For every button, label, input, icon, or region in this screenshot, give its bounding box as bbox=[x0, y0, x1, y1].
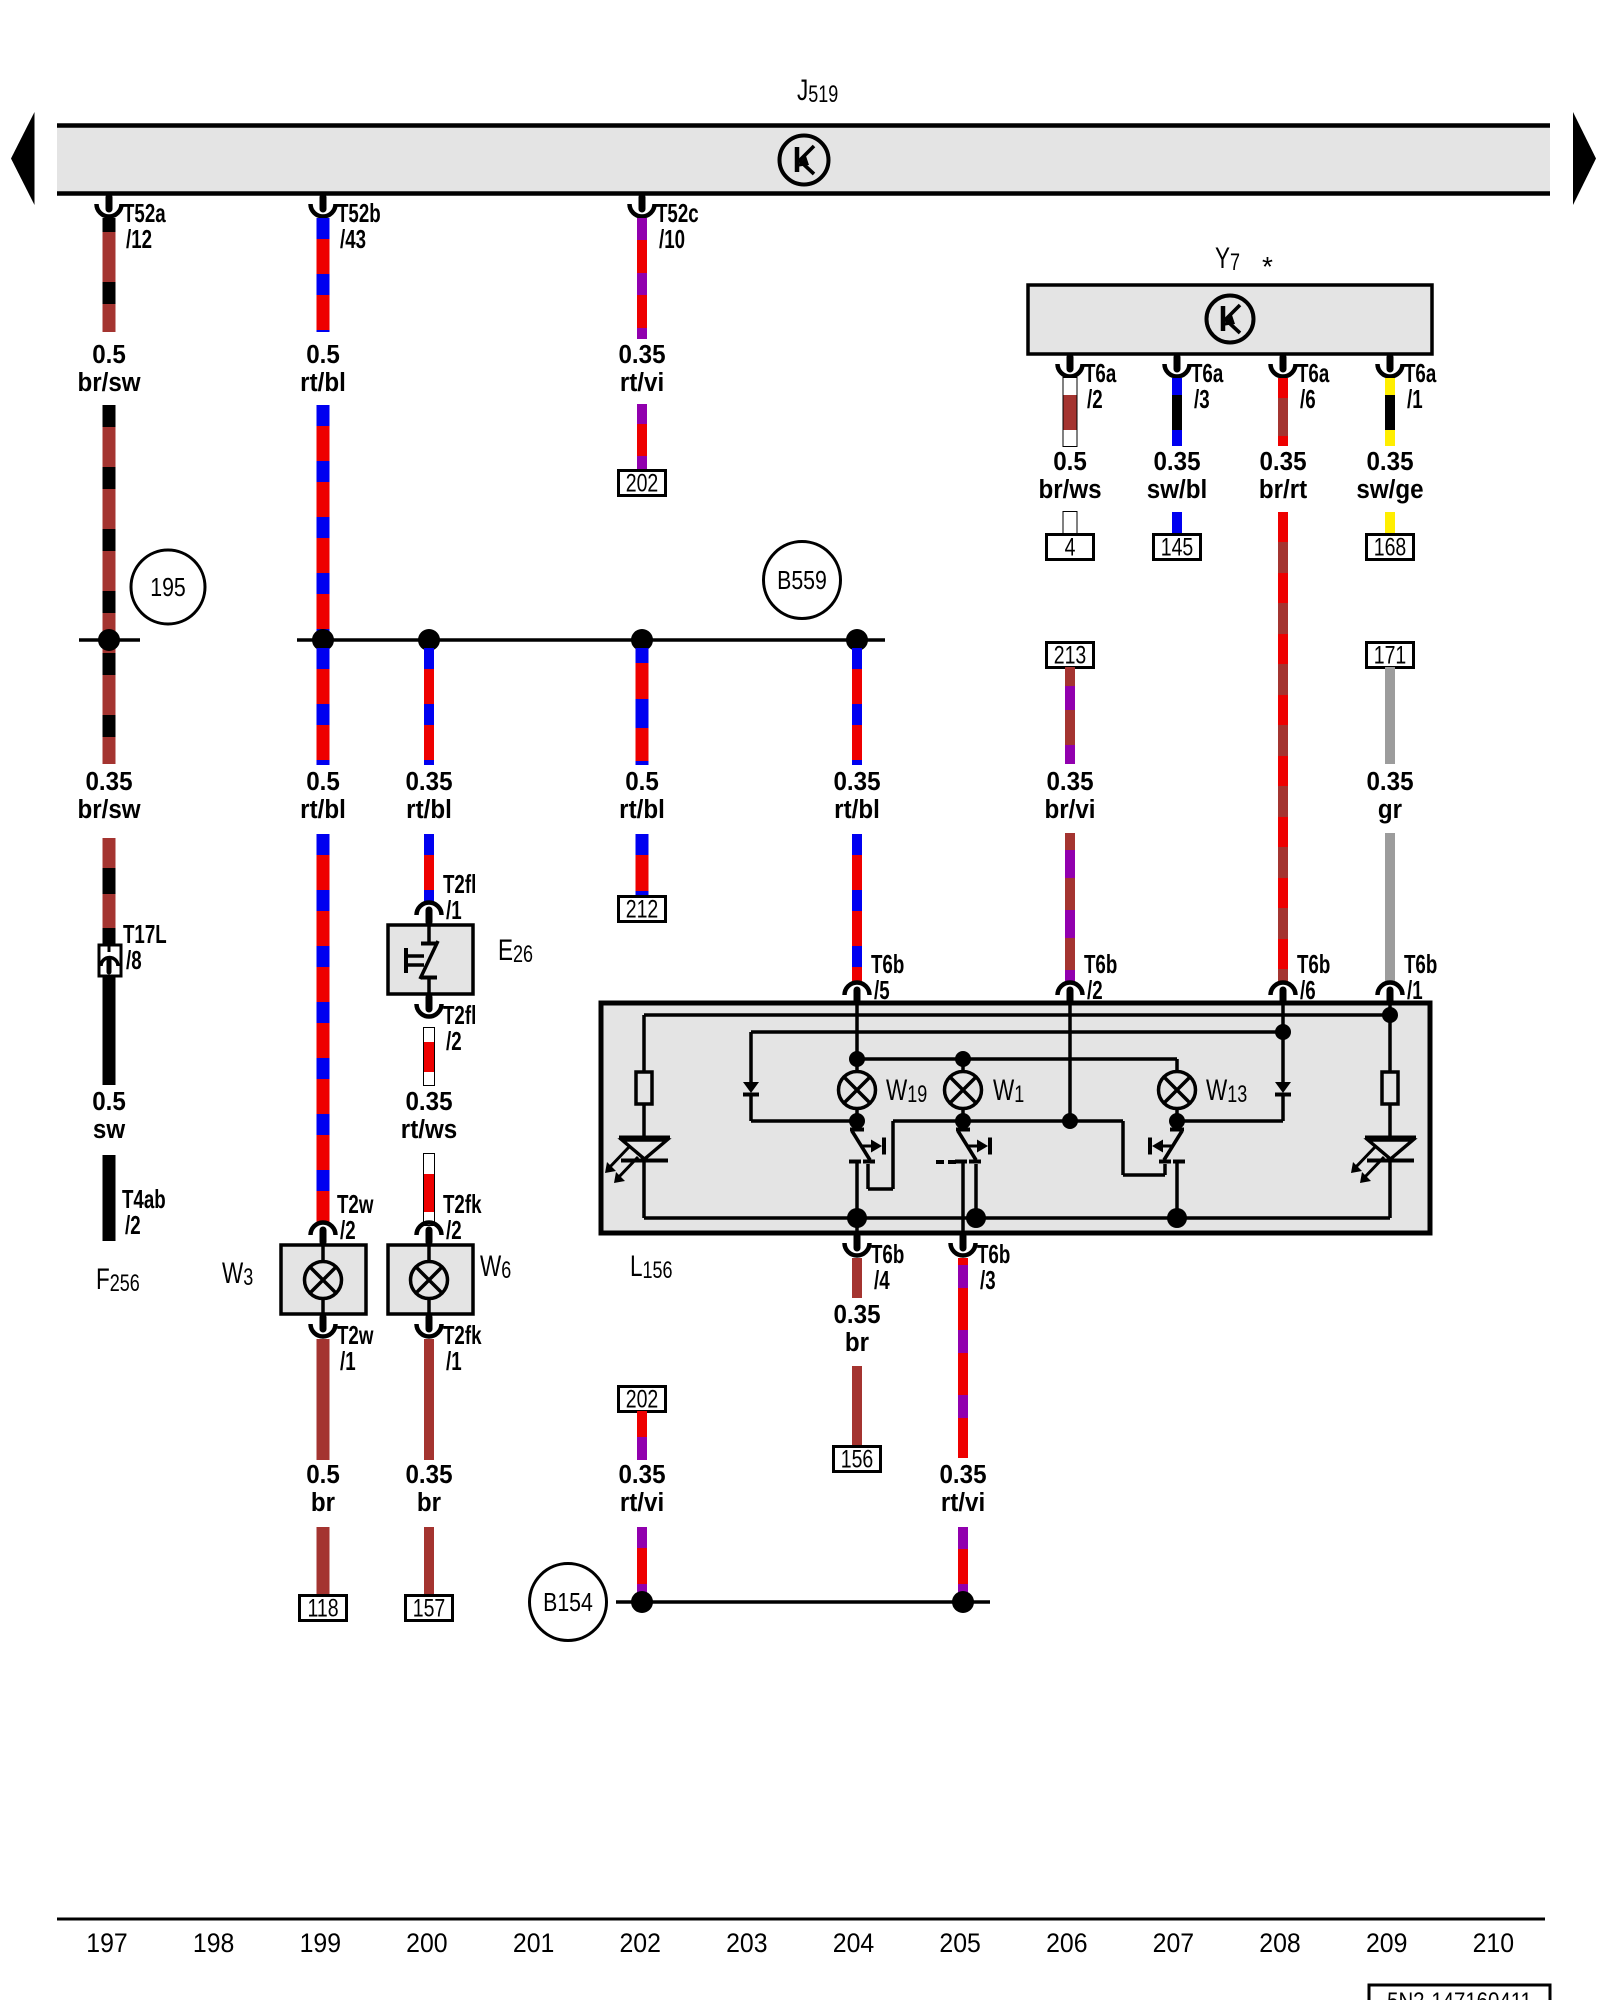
svg-text:br/vi: br/vi bbox=[1044, 795, 1095, 824]
connector T6a/1 bbox=[1387, 357, 1394, 369]
svg-text:/5: /5 bbox=[874, 975, 890, 1005]
junction dot W13 on bottom rail bbox=[1167, 1208, 1187, 1228]
wire source box 212 bbox=[619, 897, 666, 922]
lamp W3 bbox=[305, 1262, 342, 1299]
junction dot 202 bbox=[631, 629, 653, 651]
wire 0.5 sw seg1 bbox=[103, 976, 116, 1085]
wire stub to 4 bbox=[1064, 512, 1077, 535]
bus node symbol K (in J519) bbox=[780, 136, 829, 185]
connector T2fl/2 bbox=[426, 997, 433, 1009]
junction dot 204 bbox=[846, 629, 868, 651]
wire rt/vi lower seg2 bbox=[637, 1527, 647, 1548]
wire dest box 4 bbox=[1047, 535, 1094, 560]
svg-text:br: br bbox=[417, 1488, 441, 1517]
svg-text:/12: /12 bbox=[126, 224, 152, 254]
svg-text:0.35: 0.35 bbox=[1366, 447, 1413, 476]
svg-text:br/rt: br/rt bbox=[1259, 475, 1308, 504]
wire lamp-bottom rail left bbox=[751, 1119, 857, 1123]
wire W1 top stub bbox=[961, 1059, 965, 1072]
wire 0.5 br/ws bbox=[1064, 378, 1077, 446]
node circle B559 bbox=[764, 542, 841, 619]
svg-text:/2: /2 bbox=[1087, 975, 1103, 1005]
svg-text:/10: /10 bbox=[659, 224, 685, 254]
svg-text:/4: /4 bbox=[874, 1265, 890, 1295]
svg-text:0.5: 0.5 bbox=[306, 1460, 340, 1489]
wire left resistor to LED bbox=[642, 1104, 646, 1138]
resistor left bbox=[636, 1072, 652, 1104]
svg-text:157: 157 bbox=[413, 1594, 446, 1622]
wire rt/bl seg3 bbox=[317, 648, 330, 669]
wire source box 171 bbox=[1367, 643, 1414, 668]
svg-text:/3: /3 bbox=[1194, 384, 1210, 414]
junction bus line B154 bbox=[616, 1600, 990, 1604]
svg-text:/3: /3 bbox=[980, 1265, 996, 1295]
wire T6b/6 into module bbox=[1281, 1005, 1285, 1032]
svg-text:br: br bbox=[845, 1328, 869, 1357]
svg-text:*: * bbox=[1262, 251, 1273, 282]
svg-text:/2: /2 bbox=[125, 1210, 141, 1240]
svg-text:Y7: Y7 bbox=[1215, 241, 1240, 276]
wire stub to 168 bbox=[1385, 512, 1395, 535]
LED left bbox=[619, 1136, 670, 1140]
ground ref box 156 bbox=[834, 1447, 881, 1472]
svg-text:rt/bl: rt/bl bbox=[834, 795, 880, 824]
lamp box W6 bbox=[388, 1245, 473, 1314]
connector T6b/5 bbox=[854, 990, 861, 1002]
svg-text:/6: /6 bbox=[1300, 384, 1316, 414]
svg-text:0.35: 0.35 bbox=[85, 767, 132, 796]
wire 0.35 br seg1 (col200) bbox=[424, 1339, 434, 1460]
svg-text:0.35: 0.35 bbox=[1259, 447, 1306, 476]
wire left LED to bottom rail bbox=[642, 1160, 646, 1218]
connector T6a/6 bbox=[1280, 357, 1287, 369]
transistor switch for W13 bbox=[1170, 1128, 1184, 1132]
svg-text:F256: F256 bbox=[96, 1262, 140, 1297]
wire 0.5 rt/bl (col202) bbox=[636, 648, 649, 663]
wire right LED to bottom rail bbox=[1388, 1160, 1392, 1218]
svg-text:199: 199 bbox=[300, 1929, 341, 1958]
wire 0.35 br seg2 (col204) bbox=[852, 1366, 862, 1447]
svg-text:203: 203 bbox=[726, 1929, 767, 1958]
svg-text:W3: W3 bbox=[222, 1256, 253, 1291]
wire rt/ws seg2 bbox=[424, 1154, 434, 1225]
svg-text:207: 207 bbox=[1153, 1929, 1194, 1958]
svg-text:168: 168 bbox=[1374, 533, 1407, 561]
lamp W1 bbox=[945, 1072, 982, 1109]
wire T6b/5 into W19 bbox=[855, 1005, 859, 1072]
wire 0.35 br seg2 (col200) bbox=[424, 1527, 434, 1596]
wire dest box 168 bbox=[1367, 535, 1414, 560]
wire 0.35 rt/bl seg1 (col200) bbox=[424, 648, 434, 669]
wire rt/bl seg2 bbox=[317, 405, 330, 426]
wire internal bottom rail bbox=[644, 1216, 1390, 1220]
transistor switch for W1 bbox=[956, 1128, 970, 1132]
svg-text:0.5: 0.5 bbox=[1053, 447, 1087, 476]
wire junction at 195 bbox=[79, 638, 140, 642]
wire 0.35 sw/ge bbox=[1385, 378, 1395, 395]
svg-text:/1: /1 bbox=[340, 1346, 356, 1376]
right continuation arrow bbox=[1573, 112, 1596, 205]
wire stub to 145 bbox=[1172, 512, 1182, 535]
svg-text:0.35: 0.35 bbox=[405, 1460, 452, 1489]
lamp W13 bbox=[1159, 1072, 1196, 1109]
svg-text:/1: /1 bbox=[1407, 384, 1423, 414]
svg-text:rt/bl: rt/bl bbox=[300, 368, 346, 397]
svg-text:0.35: 0.35 bbox=[405, 1087, 452, 1116]
wire source box 213 bbox=[1047, 643, 1094, 668]
wire 0.5 br seg2 bbox=[317, 1527, 330, 1596]
svg-text:/1: /1 bbox=[446, 895, 462, 925]
svg-text:205: 205 bbox=[939, 1929, 980, 1958]
wire rt/bl seg2 (col200) bbox=[424, 834, 434, 855]
svg-text:0.35: 0.35 bbox=[618, 340, 665, 369]
wire W13 top branch bbox=[1175, 1059, 1179, 1072]
wire lamp-bottom rail right bbox=[1177, 1119, 1283, 1123]
wire gr seg2 bbox=[1385, 833, 1395, 982]
svg-text:0.5: 0.5 bbox=[306, 767, 340, 796]
junction dot 200 bbox=[418, 629, 440, 651]
svg-text:209: 209 bbox=[1366, 1929, 1407, 1958]
wire 0.35 rt/bl (col204 seg1) bbox=[852, 648, 862, 669]
wire 0.35 rt/vi (col205 seg1) bbox=[958, 1258, 968, 1265]
svg-text:0.35: 0.35 bbox=[833, 767, 880, 796]
wire rt/vi seg2 bbox=[637, 404, 647, 424]
svg-text:156: 156 bbox=[841, 1445, 874, 1473]
wire 0.5 br/sw seg1 bbox=[103, 218, 116, 232]
ECU box J519 (bus bar) bbox=[57, 127, 1550, 193]
svg-text:197: 197 bbox=[86, 1929, 127, 1958]
svg-text:rt/ws: rt/ws bbox=[401, 1115, 457, 1144]
wire source box 202 (bottom) bbox=[619, 1387, 666, 1412]
svg-text:B559: B559 bbox=[777, 566, 827, 596]
wire internal left branch vertical bbox=[642, 1015, 646, 1072]
actuator box Y7 bbox=[1028, 285, 1432, 354]
wire internal lamp-top rail bbox=[857, 1057, 1177, 1061]
svg-text:/1: /1 bbox=[446, 1346, 462, 1376]
svg-text:201: 201 bbox=[513, 1929, 554, 1958]
svg-text:br/ws: br/ws bbox=[1038, 475, 1101, 504]
wire rt/vi (col205 seg2) bbox=[958, 1527, 968, 1549]
transistor switch for W19 bbox=[850, 1128, 864, 1132]
wire 0.35 gr seg1 bbox=[1385, 667, 1395, 764]
junction dot B154 right bbox=[952, 1591, 974, 1613]
connector T2fk/2 bbox=[426, 1230, 433, 1242]
svg-text:rt/bl: rt/bl bbox=[406, 795, 452, 824]
svg-text:212: 212 bbox=[626, 895, 659, 923]
svg-text:210: 210 bbox=[1473, 1929, 1514, 1958]
svg-text:118: 118 bbox=[307, 1594, 338, 1622]
wire br/vi seg2 bbox=[1065, 833, 1075, 850]
svg-text:0.35: 0.35 bbox=[1153, 447, 1200, 476]
connector T6b/3 bbox=[960, 1236, 967, 1248]
wire W13 lamp bottom bbox=[1175, 1108, 1179, 1121]
wire W19 gate out to T6b/4 bbox=[855, 1218, 859, 1233]
connector T6a/3 bbox=[1174, 357, 1181, 369]
svg-text:/2: /2 bbox=[446, 1215, 462, 1245]
wire T6b/1 into module bbox=[1388, 1005, 1392, 1015]
connector T17L/8 bbox=[99, 945, 121, 976]
connector T6a/2 bbox=[1067, 357, 1074, 369]
svg-text:br/sw: br/sw bbox=[77, 795, 141, 824]
svg-text:0.35: 0.35 bbox=[618, 1460, 665, 1489]
svg-text:br: br bbox=[311, 1488, 335, 1517]
wire 0.5 br seg1 bbox=[317, 1339, 330, 1460]
wire lamp-bottom rail mid bbox=[893, 1119, 1123, 1123]
wire T6b/2 into module bbox=[1068, 1005, 1072, 1121]
wire internal right branch vertical bbox=[1388, 1015, 1392, 1072]
junction dot W1 emitter on bottom rail bbox=[966, 1208, 986, 1228]
connector T6b/4 bbox=[854, 1236, 861, 1248]
wire 0.35 rt/ws seg1 bbox=[424, 1028, 434, 1085]
wire 0.35 rt/vi seg1 bbox=[637, 218, 647, 240]
wire rt/bl to 212 bbox=[636, 834, 649, 855]
svg-text:0.35: 0.35 bbox=[1046, 767, 1093, 796]
wire 0.35 sw/bl bbox=[1172, 378, 1182, 395]
junction dot W19 gate on bottom rail bbox=[847, 1208, 867, 1228]
svg-text:/2: /2 bbox=[340, 1215, 356, 1245]
svg-text:213: 213 bbox=[1054, 641, 1087, 669]
junction bus line B559 bbox=[297, 638, 885, 642]
diode right (in L156) bbox=[1281, 1032, 1285, 1082]
svg-text:0.35: 0.35 bbox=[1366, 767, 1413, 796]
wire br/rt long bbox=[1278, 512, 1288, 542]
svg-text:rt/vi: rt/vi bbox=[941, 1488, 985, 1517]
switch contact E26 bbox=[427, 925, 431, 943]
connector T6b/6 bbox=[1280, 990, 1287, 1002]
svg-text:206: 206 bbox=[1046, 1929, 1087, 1958]
svg-text:0.5: 0.5 bbox=[92, 340, 126, 369]
wire W19 lamp bottom bbox=[855, 1108, 859, 1121]
svg-text:/2: /2 bbox=[446, 1026, 462, 1056]
svg-text:B154: B154 bbox=[543, 1588, 593, 1618]
wire 0.35 rt/vi (lower seg1) bbox=[637, 1411, 647, 1437]
connector T6b/1 bbox=[1387, 990, 1394, 1002]
svg-text:0.5: 0.5 bbox=[306, 340, 340, 369]
wire rt/bl seg4 bbox=[317, 834, 330, 855]
svg-text:0.35: 0.35 bbox=[939, 1460, 986, 1489]
wire br/sw seg2 bbox=[103, 405, 116, 427]
lamp W6 bbox=[411, 1262, 448, 1299]
connector T52a/12 bbox=[106, 197, 113, 209]
svg-text:sw: sw bbox=[93, 1115, 126, 1144]
lamp module box L156 bbox=[601, 1003, 1430, 1233]
svg-text:0.35: 0.35 bbox=[405, 767, 452, 796]
connector T52c/10 bbox=[639, 197, 646, 209]
connector T52b/43 bbox=[320, 197, 327, 209]
svg-text:rt/bl: rt/bl bbox=[619, 795, 665, 824]
wire dest box 145 bbox=[1154, 535, 1201, 560]
svg-text:sw/bl: sw/bl bbox=[1147, 475, 1207, 504]
svg-text:204: 204 bbox=[833, 1929, 874, 1958]
ground ref box 157 bbox=[406, 1596, 453, 1621]
LED right bbox=[1365, 1136, 1416, 1140]
svg-text:200: 200 bbox=[406, 1929, 447, 1958]
node circle B154 bbox=[530, 1564, 607, 1641]
wire 0.35 br/rt seg1 bbox=[1278, 378, 1288, 398]
junction dot B154 left bbox=[631, 1591, 653, 1613]
ground ref box 118 bbox=[300, 1596, 347, 1621]
left continuation arrow bbox=[11, 112, 35, 205]
svg-text:J519: J519 bbox=[797, 73, 838, 108]
svg-text:202: 202 bbox=[626, 469, 659, 497]
wire dest box 202 (top) bbox=[619, 471, 666, 496]
diode left (in L156) bbox=[749, 1032, 753, 1082]
svg-text:0.5: 0.5 bbox=[625, 767, 659, 796]
svg-text:/1: /1 bbox=[1407, 975, 1423, 1005]
svg-text:rt/bl: rt/bl bbox=[300, 795, 346, 824]
svg-text:E26: E26 bbox=[498, 933, 533, 968]
connector T2fl/1 bbox=[426, 910, 433, 922]
svg-text:5N2-147160411: 5N2-147160411 bbox=[1387, 1987, 1532, 2000]
wire internal second rail bbox=[751, 1030, 1283, 1034]
svg-text:rt/vi: rt/vi bbox=[620, 1488, 664, 1517]
switch box E26 bbox=[388, 925, 473, 994]
svg-text:208: 208 bbox=[1259, 1929, 1300, 1958]
svg-text:/43: /43 bbox=[340, 224, 366, 254]
svg-text:145: 145 bbox=[1161, 533, 1194, 561]
svg-text:sw/ge: sw/ge bbox=[1356, 475, 1423, 504]
svg-text:202: 202 bbox=[619, 1929, 660, 1958]
connector T2w/1 bbox=[320, 1317, 327, 1329]
lamp W19 bbox=[839, 1072, 876, 1109]
wire 0.5 sw seg2 bbox=[103, 1155, 116, 1241]
wire 0.35 br seg1 (col204) bbox=[852, 1258, 862, 1298]
node circle 195 bbox=[131, 550, 205, 624]
wire rt/bl (col204 seg2) bbox=[852, 834, 862, 855]
connector T6b/2 bbox=[1067, 990, 1074, 1002]
bottom scale line bbox=[57, 1918, 1545, 1921]
svg-text:0.5: 0.5 bbox=[92, 1087, 126, 1116]
svg-text:W6: W6 bbox=[480, 1249, 511, 1284]
wire right resistor to LED bbox=[1388, 1104, 1392, 1138]
svg-text:4: 4 bbox=[1065, 533, 1076, 561]
svg-text:171: 171 bbox=[1374, 641, 1407, 669]
svg-text:L156: L156 bbox=[630, 1249, 673, 1284]
junction dot 199 bbox=[312, 629, 334, 651]
lamp box W3 bbox=[281, 1245, 366, 1314]
svg-text:0.35: 0.35 bbox=[833, 1300, 880, 1329]
svg-text:/8: /8 bbox=[126, 945, 142, 975]
wire 0.5 rt/bl seg1 bbox=[317, 218, 330, 239]
connector T2fk/1 bbox=[426, 1317, 433, 1329]
svg-text:gr: gr bbox=[1378, 795, 1402, 824]
svg-text:rt/vi: rt/vi bbox=[620, 368, 664, 397]
svg-text:/2: /2 bbox=[1087, 384, 1103, 414]
connector T2w/2 bbox=[320, 1230, 327, 1242]
svg-text:198: 198 bbox=[193, 1929, 234, 1958]
bus node symbol K (in Y7) bbox=[1207, 296, 1254, 343]
wire internal top rail bbox=[644, 1013, 1390, 1017]
svg-text:202: 202 bbox=[626, 1385, 659, 1413]
wire br/sw seg3 bbox=[103, 838, 116, 868]
drawing number box bbox=[1369, 1985, 1550, 2000]
svg-text:195: 195 bbox=[150, 573, 186, 603]
resistor right bbox=[1382, 1072, 1398, 1104]
wire W1 lamp bottom bbox=[961, 1108, 965, 1121]
svg-text:/6: /6 bbox=[1300, 975, 1316, 1005]
svg-text:br/sw: br/sw bbox=[77, 368, 141, 397]
wire 0.35 br/vi seg1 bbox=[1065, 667, 1075, 686]
